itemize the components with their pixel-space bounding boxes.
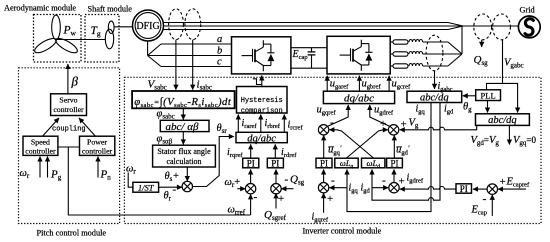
svg-text:abc/dq: abc/dq [488, 115, 517, 126]
svg-text:Hysteresis: Hysteresis [241, 97, 283, 105]
svg-text:Vgq=0: Vgq=0 [513, 135, 536, 147]
svg-text:ircref: ircref [288, 120, 304, 132]
svg-text:+: + [380, 118, 386, 130]
svg-text:PI: PI [390, 158, 398, 168]
svg-text:Speed: Speed [31, 137, 50, 146]
svg-text:φsαβ: φsαβ [157, 134, 173, 146]
svg-text:Pitch control module: Pitch control module [37, 229, 107, 238]
svg-text:ωLq: ωLq [340, 158, 354, 170]
svg-text:c: c [217, 57, 222, 68]
svg-text:ugqref: ugqref [317, 105, 337, 117]
svg-text:abc/dq: abc/dq [420, 92, 449, 103]
svg-text:Pw: Pw [63, 25, 77, 38]
svg-text:-: - [254, 192, 258, 204]
svg-text:-: - [330, 117, 334, 129]
svg-text:ωrref: ωrref [228, 205, 246, 217]
svg-text:Vsabc: Vsabc [148, 79, 167, 92]
svg-text:controller: controller [53, 105, 84, 114]
svg-text:PLL: PLL [481, 91, 496, 101]
svg-text:Vgabc: Vgabc [504, 58, 524, 70]
svg-text:a: a [217, 34, 222, 45]
svg-text:igabc: igabc [438, 81, 453, 93]
svg-text:+: + [500, 176, 506, 188]
svg-text:comparison: comparison [241, 107, 283, 115]
svg-text:u̅gq′: u̅gq′ [328, 144, 342, 157]
svg-text:φsabc: φsabc [157, 109, 175, 121]
svg-text:Vg: Vg [409, 118, 419, 130]
svg-text:Ecapref: Ecapref [506, 177, 530, 189]
svg-text:+: + [278, 193, 284, 205]
svg-text:igq: igq [416, 104, 426, 116]
svg-text:Power: Power [87, 137, 107, 146]
svg-text:PI: PI [320, 158, 328, 168]
svg-text:controller: controller [82, 146, 113, 155]
svg-text:ugbref: ugbref [362, 79, 382, 91]
svg-text:dq/abc: dq/abc [247, 133, 276, 144]
svg-text:-: - [382, 175, 386, 187]
svg-text:θs+: θs+ [165, 171, 180, 183]
svg-text:irqref: irqref [227, 147, 243, 159]
svg-text:ugcref: ugcref [392, 79, 411, 91]
svg-text:abc/ αβ: abc/ αβ [166, 121, 199, 133]
svg-text:igd: igd [361, 183, 371, 195]
svg-text:Aerodynamic module: Aerodynamic module [4, 4, 76, 13]
svg-text:ugaref: ugaref [330, 79, 349, 91]
svg-text:θr: θr [164, 191, 172, 203]
svg-text:Servo: Servo [59, 95, 77, 104]
svg-text:-: - [173, 184, 177, 196]
svg-text:b: b [217, 46, 222, 57]
svg-text:β: β [71, 74, 79, 89]
svg-text:iraref: iraref [242, 118, 258, 130]
svg-text:irbref: irbref [265, 118, 281, 130]
svg-text:irdref: irdref [281, 147, 297, 159]
svg-text:1/ST: 1/ST [138, 182, 155, 192]
svg-text:igq: igq [349, 183, 359, 195]
svg-text:-: - [285, 174, 289, 186]
svg-text:u̅gd′: u̅gd′ [396, 144, 410, 157]
svg-text:Vgd=Vg: Vgd=Vg [471, 135, 500, 147]
svg-text:controller: controller [25, 146, 56, 155]
svg-text:dq/abc: dq/abc [344, 92, 374, 104]
svg-text:Tg: Tg [91, 25, 101, 38]
svg-text:Qsgref: Qsgref [264, 209, 287, 222]
svg-text:Shaft module: Shaft module [88, 5, 133, 14]
svg-text:isabc: isabc [197, 79, 213, 92]
svg-text:DFIG: DFIG [136, 21, 159, 32]
svg-text:ωr+: ωr+ [225, 177, 241, 189]
svg-text:igdref: igdref [407, 173, 424, 185]
svg-text:igd: igd [444, 104, 454, 116]
svg-text:ωr: ωr [126, 164, 136, 176]
svg-text:φsabc=∫(Vsabc-Rsisabc)dt: φsabc=∫(Vsabc-Rsisabc)dt [134, 96, 232, 109]
svg-text:+: + [401, 119, 407, 131]
svg-text:PI: PI [460, 184, 468, 194]
svg-text:Pn: Pn [100, 169, 112, 182]
svg-text:Inverter control module: Inverter control module [303, 227, 382, 236]
svg-text:PI: PI [247, 158, 255, 168]
svg-text:Qsg: Qsg [290, 174, 305, 187]
svg-text:Ecap: Ecap [471, 205, 487, 217]
svg-text:igqref: igqref [312, 211, 329, 223]
svg-text:Pg: Pg [50, 169, 62, 182]
svg-text:Qsg: Qsg [474, 54, 489, 67]
svg-text:ωLd: ωLd [366, 158, 380, 170]
svg-text:Grid: Grid [520, 6, 536, 15]
svg-text:ugdref: ugdref [374, 105, 394, 117]
svg-text:coupling: coupling [52, 126, 86, 134]
svg-text:-: - [331, 175, 335, 187]
svg-text:+: + [327, 193, 333, 205]
svg-text:+: + [399, 176, 405, 188]
svg-text:Stator flux angle: Stator flux angle [157, 147, 211, 156]
svg-text:PI: PI [271, 158, 279, 168]
svg-text:-: - [483, 194, 487, 206]
svg-text:calculation: calculation [166, 157, 201, 166]
svg-text:ωr: ωr [20, 168, 30, 180]
svg-text:θsr: θsr [217, 123, 228, 135]
svg-text:θg: θg [463, 102, 472, 114]
svg-text:Ecap: Ecap [292, 49, 308, 61]
